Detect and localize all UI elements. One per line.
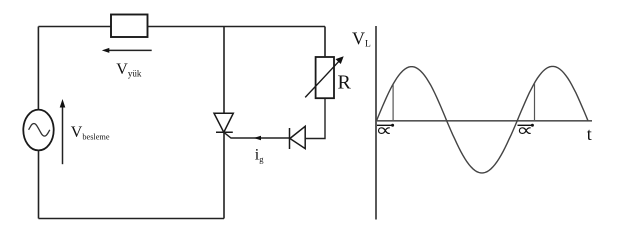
alpha overline 1	[377, 124, 394, 126]
svg-text:t: t	[587, 124, 592, 144]
alpha overline 2	[518, 124, 534, 126]
load resistor (rectangle)	[111, 15, 148, 38]
wire middle branch lower	[223, 132, 225, 218]
thyristor (SCR) triangle	[214, 113, 233, 132]
svg-text:∝: ∝	[375, 120, 392, 140]
wire top-left horizontal	[38, 26, 111, 28]
wire bottom horizontal	[39, 218, 225, 220]
ac source V_besleme	[23, 110, 53, 151]
diac bar	[289, 128, 291, 149]
alpha overline 2 end dot	[531, 124, 534, 127]
gate current arrowhead (i_g, pointing left)	[254, 136, 262, 140]
wire left vertical (bottom)	[38, 150, 40, 218]
wire top horizontal to right branch	[148, 26, 326, 28]
graph x-axis	[376, 120, 592, 122]
svg-text:VL: VL	[352, 29, 371, 50]
svg-text:ig: ig	[255, 147, 264, 165]
alpha overline 1 end dot	[391, 124, 394, 127]
alpha marker line 2	[534, 83, 536, 121]
thyristor cathode bar	[216, 131, 233, 133]
wire R top to top wire	[324, 27, 326, 58]
svg-text:R: R	[338, 72, 352, 94]
wire left vertical (top)	[37, 27, 39, 111]
gate wire	[224, 132, 290, 138]
graph y-axis	[375, 26, 377, 220]
svg-text:Vbesleme: Vbesleme	[71, 124, 110, 142]
variable resistor diagonal arrow	[305, 56, 344, 97]
variable resistor R body	[316, 57, 334, 98]
wire middle branch upper	[223, 27, 225, 114]
V_besleme arrow (pointing up)	[60, 99, 66, 164]
svg-text:∝: ∝	[516, 120, 533, 140]
alpha marker line 1	[392, 84, 394, 121]
sine waveform V_L	[377, 66, 589, 172]
diac triangle	[290, 126, 305, 148]
wire diac to right branch	[305, 98, 325, 138]
V_yuk arrow (pointing left)	[102, 48, 152, 53]
svg-text:Vyük: Vyük	[116, 61, 142, 79]
